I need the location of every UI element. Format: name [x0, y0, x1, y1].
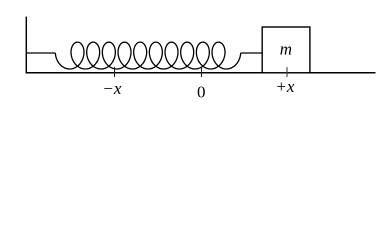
svg-text:m: m — [280, 39, 292, 58]
wire lead-out — [241, 52, 263, 54]
tick +x — [286, 67, 288, 77]
wall — [25, 17, 27, 74]
svg-text:0: 0 — [197, 82, 206, 101]
tick -x — [114, 67, 116, 77]
mass box — [262, 27, 310, 73]
spring — [55, 42, 240, 69]
floor — [26, 72, 376, 74]
svg-text:−x: −x — [102, 79, 121, 98]
svg-text:+x: +x — [275, 77, 294, 96]
tick 0 — [201, 67, 203, 77]
wire lead-in — [26, 52, 55, 54]
